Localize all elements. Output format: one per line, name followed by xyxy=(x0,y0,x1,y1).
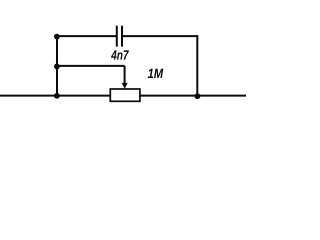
wire: wiper vertical drop xyxy=(124,66,126,85)
wire: left vertical bus xyxy=(56,35,58,96)
value label 1M xyxy=(148,69,153,78)
wire: top horizontal, node A to capacitor left plate xyxy=(57,35,117,37)
wire: right vertical drop to bottom rail xyxy=(196,35,198,96)
wiper arrowhead xyxy=(122,83,128,89)
capacitor 4n7 xyxy=(117,26,122,47)
wire: capacitor right plate to right corner xyxy=(122,35,197,37)
junction node D xyxy=(195,93,201,99)
junction node B xyxy=(54,64,60,70)
wire: middle horizontal, node B to wiper corner xyxy=(57,65,125,67)
potentiometer body 1M xyxy=(110,89,140,101)
junction node C xyxy=(54,93,60,99)
wire: bottom horizontal rail xyxy=(0,95,246,97)
junction node A xyxy=(54,34,60,40)
value label 4n7 xyxy=(111,50,117,59)
